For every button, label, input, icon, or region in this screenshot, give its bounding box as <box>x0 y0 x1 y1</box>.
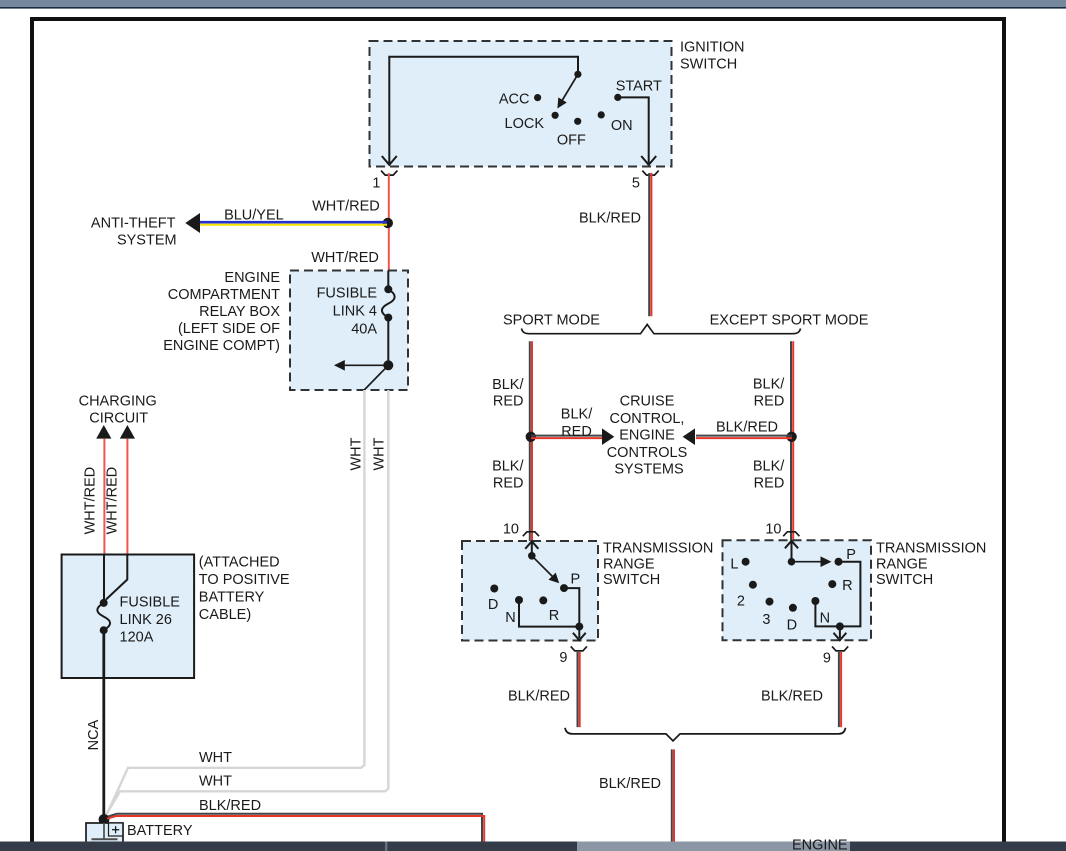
svg-text:BLK/: BLK/ <box>753 458 785 474</box>
svg-text:10: 10 <box>765 521 781 537</box>
wire link4 to switch junction <box>387 318 389 366</box>
svg-text:LINK 4: LINK 4 <box>333 304 377 320</box>
down arrow out of right TRS <box>834 626 847 640</box>
svg-text:WHT: WHT <box>199 750 232 766</box>
up arrow into right TRS <box>785 541 798 562</box>
WHT vertical labels <box>348 437 387 470</box>
relay box label <box>163 270 280 354</box>
left TRS arm to P <box>532 556 559 584</box>
node: switch arm pivot <box>574 71 581 78</box>
right TRS arm to P <box>792 556 832 567</box>
wire WHT 1 (relay to battery junction) <box>105 390 365 819</box>
svg-text:EXCEPT SPORT MODE: EXCEPT SPORT MODE <box>710 313 869 329</box>
pin 1 connector <box>381 171 397 176</box>
anti-theft system label <box>91 216 177 249</box>
cruise control systems label <box>607 393 688 477</box>
svg-text:BLK/RED: BLK/RED <box>716 420 778 436</box>
svg-text:BATTERY: BATTERY <box>199 590 265 606</box>
svg-text:WHT: WHT <box>348 437 364 470</box>
contact D (right TRS) <box>789 604 797 612</box>
svg-text:CONTROL,: CONTROL, <box>610 411 685 427</box>
svg-text:SPORT MODE: SPORT MODE <box>503 313 600 329</box>
svg-text:P: P <box>846 547 856 563</box>
up arrow into left TRS <box>525 541 538 556</box>
wire WHT 2 (relay to battery junction) <box>105 390 389 818</box>
brace splitting pin5 wire <box>522 325 801 334</box>
svg-text:R: R <box>842 578 852 594</box>
svg-text:N: N <box>820 611 830 627</box>
svg-text:RED: RED <box>493 475 524 491</box>
down arrow out of left TRS <box>573 627 586 641</box>
transmission range switch box (except sport) <box>723 540 872 640</box>
contact N (left TRS) <box>515 596 523 604</box>
svg-text:CIRCUIT: CIRCUIT <box>89 411 148 427</box>
labels BLK/RED right upper <box>753 377 785 410</box>
svg-text:BLK/RED: BLK/RED <box>761 689 823 705</box>
node: except sport tap <box>786 432 796 442</box>
sport mode labels <box>503 313 869 329</box>
charging circuit label <box>79 394 157 427</box>
svg-text:FUSIBLE: FUSIBLE <box>317 286 378 302</box>
svg-text:D: D <box>488 597 498 613</box>
svg-text:5: 5 <box>632 176 640 192</box>
contact R (right TRS) <box>828 580 836 588</box>
svg-text:SWITCH: SWITCH <box>876 572 933 588</box>
fusible link 4 element <box>382 285 395 321</box>
svg-text:OFF: OFF <box>557 133 586 149</box>
svg-text:10: 10 <box>503 521 519 537</box>
wire WHT/RED charging right <box>126 439 128 555</box>
svg-text:9: 9 <box>823 651 831 667</box>
svg-text:P: P <box>571 572 581 588</box>
wire BLK/RED pin9 left down <box>578 652 580 727</box>
svg-text:BLK/: BLK/ <box>753 377 785 393</box>
svg-text:N: N <box>505 610 515 626</box>
svg-text:D: D <box>787 618 797 634</box>
svg-text:ANTI-THEFT: ANTI-THEFT <box>91 216 176 232</box>
labels BLK/RED left lower <box>492 459 524 492</box>
wire: ignition internal feed to pin 1 <box>389 57 578 163</box>
svg-text:R: R <box>549 608 559 624</box>
svg-text:BLK/: BLK/ <box>492 377 524 393</box>
wire BLK/RED to cruise (left) <box>531 428 614 445</box>
wire BLK/RED to engine controls <box>672 749 674 842</box>
arrow up to charging circuit left <box>96 425 111 439</box>
engine compartment relay box <box>290 271 408 391</box>
svg-text:RED: RED <box>493 394 524 410</box>
arrow down at pin1 leg <box>382 156 397 165</box>
svg-text:CRUISE: CRUISE <box>620 393 675 409</box>
contact D (left TRS) <box>490 585 498 593</box>
contact P (left TRS) <box>560 584 568 592</box>
ignition switch box U1 <box>370 41 672 167</box>
svg-text:ENGINE: ENGINE <box>792 838 848 851</box>
svg-text:TRANSMISSION: TRANSMISSION <box>603 541 713 557</box>
svg-text:ENGINE COMPT): ENGINE COMPT) <box>163 338 280 354</box>
node: battery positive junction <box>99 814 110 825</box>
bottom scrollbar <box>0 842 1066 851</box>
svg-text:BLK/RED: BLK/RED <box>599 776 661 792</box>
svg-text:LINK 26: LINK 26 <box>120 612 172 628</box>
svg-text:WHT/RED: WHT/RED <box>311 250 379 266</box>
svg-text:BATTERY: BATTERY <box>127 823 193 839</box>
switch arm with arrowhead <box>557 74 578 108</box>
ignition switch label <box>680 40 744 73</box>
svg-text:SYSTEM: SYSTEM <box>117 233 177 249</box>
svg-text:BLK/RED: BLK/RED <box>199 798 261 814</box>
wire into fusible link 4 <box>387 271 389 290</box>
labels BLK/RED left upper <box>492 377 524 410</box>
svg-text:RANGE: RANGE <box>876 556 928 572</box>
fusible link 26 label <box>120 595 181 646</box>
svg-text:SWITCH: SWITCH <box>680 57 737 73</box>
svg-text:WHT/RED: WHT/RED <box>83 467 99 535</box>
svg-text:BLK/: BLK/ <box>492 459 524 475</box>
svg-text:COMPARTMENT: COMPARTMENT <box>168 287 280 303</box>
svg-text:120A: 120A <box>120 630 154 646</box>
arrow up to charging circuit right <box>120 425 135 439</box>
svg-text:1: 1 <box>372 176 380 192</box>
svg-text:LOCK: LOCK <box>505 116 545 132</box>
wire BLK/RED except-sport vertical <box>791 341 793 541</box>
wire WHT/RED junction to relay box <box>388 228 390 271</box>
wire right leg into link26 <box>106 555 127 600</box>
svg-text:START: START <box>616 79 662 95</box>
arrow down at pin5 leg <box>641 156 656 165</box>
node: anti-theft tap junction <box>383 218 393 228</box>
fusible link 26 box <box>62 555 195 679</box>
svg-text:L: L <box>730 557 738 573</box>
svg-text:BLK/RED: BLK/RED <box>508 689 570 705</box>
svg-text:BLU/YEL: BLU/YEL <box>224 208 284 224</box>
transmission range switch box (sport) <box>462 541 598 641</box>
svg-text:NCA: NCA <box>86 719 102 750</box>
svg-text:TO POSITIVE: TO POSITIVE <box>199 572 290 588</box>
svg-text:ON: ON <box>611 118 633 134</box>
wires P and N to output (left TRS) <box>519 588 579 627</box>
contact P (right TRS) <box>835 558 843 566</box>
wire NCA link26 to battery <box>102 630 105 817</box>
svg-text:WHT: WHT <box>372 437 388 470</box>
contact N (right TRS) <box>811 597 819 605</box>
pin 9 left connector <box>571 646 587 651</box>
WHT/RED vertical labels <box>83 467 121 535</box>
svg-text:40A: 40A <box>351 322 377 338</box>
wire BLK/RED pin5 down <box>649 173 651 316</box>
wire BLK/RED battery feed <box>107 814 484 842</box>
contact L (right TRS) <box>742 558 750 566</box>
svg-text:BLK/RED: BLK/RED <box>579 211 641 227</box>
contact R (left TRS) <box>539 596 547 604</box>
battery symbol <box>86 823 123 846</box>
wire BLK/RED pin9 right down <box>839 652 841 727</box>
svg-text:TRANSMISSION: TRANSMISSION <box>876 541 986 557</box>
svg-text:WHT/RED: WHT/RED <box>312 199 380 215</box>
svg-text:RED: RED <box>561 424 592 440</box>
wires P and N to output (right TRS) <box>815 562 860 627</box>
svg-text:ACC: ACC <box>499 92 530 108</box>
contact ON <box>598 111 605 118</box>
node: relay switch junction <box>383 360 393 370</box>
svg-text:2: 2 <box>737 594 745 610</box>
node: left TRS output junction <box>575 623 583 631</box>
svg-text:9: 9 <box>559 650 567 666</box>
svg-text:3: 3 <box>762 612 770 628</box>
node: right TRS output junction <box>836 622 844 630</box>
svg-text:WHT: WHT <box>199 774 232 790</box>
svg-text:CONTROLS: CONTROLS <box>607 445 688 461</box>
wire BLK/RED to cruise (right) <box>683 428 792 445</box>
svg-text:RANGE: RANGE <box>603 556 655 572</box>
contact LOCK <box>552 112 559 119</box>
pin 9 right connector <box>832 646 848 651</box>
svg-text:FUSIBLE: FUSIBLE <box>120 595 181 611</box>
svg-text:(ATTACHED: (ATTACHED <box>199 555 280 571</box>
svg-text:ENGINE: ENGINE <box>619 427 675 443</box>
svg-text:IGNITION: IGNITION <box>680 40 744 56</box>
node: left TRS common <box>528 552 536 560</box>
brace joining pin9 wires <box>565 728 846 741</box>
svg-text:ENGINE: ENGINE <box>224 270 280 286</box>
wire WHT/RED charging left <box>103 439 105 555</box>
svg-text:RED: RED <box>754 394 785 410</box>
svg-text:CHARGING: CHARGING <box>79 394 157 410</box>
pin 5 connector <box>642 171 658 176</box>
fusible link 26 element <box>97 599 110 634</box>
svg-text:RELAY BOX: RELAY BOX <box>199 304 280 320</box>
window header bar <box>0 0 1066 7</box>
WHT horizontal labels <box>199 750 232 790</box>
contact 2 (right TRS) <box>749 581 757 589</box>
fusible link 4 label <box>317 286 378 338</box>
wire BLK/RED sport-mode vertical <box>530 341 532 541</box>
svg-text:(LEFT SIDE OF: (LEFT SIDE OF <box>178 321 280 337</box>
wire: START to pin 5 <box>618 97 649 163</box>
svg-text:WHT/RED: WHT/RED <box>105 467 121 535</box>
node: right TRS common <box>788 558 796 566</box>
node: sport mode tap <box>526 432 536 442</box>
wire WHT/RED pin1 to junction <box>388 173 390 222</box>
relay switch diagonal contact <box>364 365 388 390</box>
labels BLK/RED right lower <box>753 458 785 491</box>
wire BLU/YEL to anti-theft <box>185 213 387 233</box>
contact ACC <box>534 94 541 101</box>
svg-text:SWITCH: SWITCH <box>603 572 660 588</box>
svg-text:RED: RED <box>754 475 785 491</box>
svg-text:SYSTEMS: SYSTEMS <box>614 462 683 478</box>
svg-text:BLK/: BLK/ <box>561 406 593 422</box>
contact 3 (right TRS) <box>766 598 774 606</box>
svg-text:CABLE): CABLE) <box>199 607 251 623</box>
attached-to note <box>199 555 290 624</box>
contact OFF <box>574 118 581 125</box>
contact START <box>614 94 621 101</box>
wire left into link26 <box>103 555 105 603</box>
relay arrow pointing left <box>334 360 388 371</box>
